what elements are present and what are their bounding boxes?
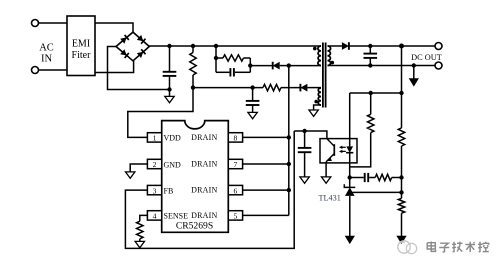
svg-text:FB: FB bbox=[164, 186, 174, 195]
capacitor FB C5 bbox=[298, 131, 312, 177]
resistor startup R1 bbox=[190, 46, 196, 88]
capacitor VDD C2 bbox=[246, 88, 260, 113]
svg-text:AC: AC bbox=[39, 43, 54, 54]
pin 1 box bbox=[147, 133, 161, 143]
wire snubber left leg bbox=[215, 46, 217, 72]
node compensation junction bbox=[348, 175, 352, 179]
wire secondary top rail bbox=[349, 45, 435, 47]
wire EMI top out to bridge top bbox=[95, 23, 133, 33]
diode output D2 bbox=[342, 42, 349, 50]
wire opto bias line bbox=[350, 92, 402, 94]
wire FB line bbox=[294, 131, 327, 139]
wire pin7 bbox=[242, 163, 289, 165]
bridge diode top-right bbox=[137, 35, 146, 44]
diode aux rectifier D3 bbox=[300, 84, 307, 92]
pin label DRAIN 8 bbox=[191, 133, 217, 142]
pin 3 box bbox=[147, 185, 161, 195]
pin 7 box bbox=[228, 159, 242, 169]
pin label DRAIN 6 bbox=[191, 186, 217, 195]
AC input terminal bottom bbox=[32, 67, 39, 74]
node secondary ground tap bbox=[412, 63, 416, 67]
wire aux diode to winding bbox=[307, 87, 321, 89]
pin 2 box bbox=[147, 159, 161, 169]
wire AC top to EMI bbox=[39, 22, 68, 24]
node FB cap bbox=[302, 129, 306, 133]
compensation cap C6 bbox=[350, 173, 376, 182]
DC output terminal plus bbox=[435, 43, 442, 50]
svg-text:CR5269S: CR5269S bbox=[176, 220, 213, 231]
pin 8 box bbox=[228, 133, 242, 143]
svg-text:IN: IN bbox=[41, 54, 52, 65]
node drain bbox=[287, 63, 291, 67]
wire AC bottom to EMI bbox=[39, 69, 68, 71]
wire snubber to clamp diode bbox=[250, 65, 272, 67]
wire feedback column upper bbox=[401, 46, 403, 128]
wire secondary bottom rail bbox=[328, 65, 436, 67]
watermark text dianzijishukong bbox=[427, 242, 489, 253]
pin label VDD bbox=[164, 134, 182, 143]
node REF junction bbox=[399, 190, 403, 194]
transformer secondary winding bbox=[328, 46, 331, 66]
wire pin8 bbox=[242, 136, 289, 138]
bridge diode bottom-left bbox=[120, 49, 129, 58]
svg-text:4: 4 bbox=[153, 212, 157, 221]
ground FB cap bbox=[300, 177, 309, 183]
node divider top line bbox=[399, 91, 403, 95]
wire aux winding bottom bbox=[314, 105, 321, 110]
wire top HV bus bbox=[149, 45, 321, 47]
label AC IN bbox=[39, 43, 54, 65]
svg-text:1: 1 bbox=[153, 134, 157, 143]
bridge diode bottom-right bbox=[137, 49, 146, 58]
ground sense arrow bbox=[135, 239, 144, 248]
node RC junction right bbox=[399, 175, 403, 179]
node LED resistor top bbox=[369, 91, 373, 95]
ground secondary bbox=[409, 66, 418, 86]
primary polarity dot bbox=[313, 47, 317, 51]
node VDD cap bbox=[250, 85, 254, 89]
optocoupler U2 body bbox=[320, 139, 357, 163]
node output cap bottom bbox=[368, 63, 372, 67]
transformer aux winding bbox=[318, 88, 321, 105]
wire divider bottom bbox=[401, 213, 403, 236]
wire opto anode bbox=[349, 93, 351, 139]
capacitor output C3 bbox=[364, 46, 378, 66]
svg-text:DRAIN: DRAIN bbox=[191, 133, 217, 142]
resistor snubber R2 bbox=[216, 55, 250, 61]
node startup/VDD junction bbox=[191, 85, 195, 89]
wire clamp diode to drain node bbox=[280, 65, 289, 67]
EMI filter block bbox=[67, 16, 95, 76]
node bulk cap bottom bus bbox=[167, 87, 171, 91]
svg-text:DC OUT: DC OUT bbox=[411, 53, 442, 62]
node bulk cap top bbox=[167, 44, 171, 48]
wire VDD routing to pin1 bbox=[128, 88, 193, 138]
node feedback tap top bbox=[399, 44, 404, 49]
resistor LED parallel R6 bbox=[350, 93, 374, 167]
wire VDD line bbox=[193, 87, 263, 89]
wire bridge negative to bottom bus bbox=[108, 47, 170, 90]
ground divider bbox=[397, 236, 406, 243]
wire opto cathode to TL431 bbox=[349, 163, 351, 188]
transformer primary winding bbox=[318, 46, 321, 66]
pin 4 box bbox=[147, 211, 161, 221]
svg-text:3: 3 bbox=[153, 186, 157, 195]
opto LED bbox=[346, 139, 353, 163]
svg-text:DRAIN: DRAIN bbox=[191, 186, 217, 195]
wire EMI bottom out to bridge bottom bbox=[95, 61, 134, 73]
ground opto emitter bbox=[321, 177, 330, 183]
wire drain rail bbox=[288, 66, 290, 216]
ground pin2 bbox=[126, 172, 135, 178]
opto light arrows bbox=[339, 146, 346, 154]
DC output terminal minus bbox=[435, 62, 442, 69]
resistor divider lower R5 bbox=[398, 198, 404, 213]
svg-text:2: 2 bbox=[153, 160, 157, 169]
wire pin4 bbox=[140, 215, 148, 221]
svg-text:DRAIN: DRAIN bbox=[191, 160, 217, 169]
svg-text:TL431: TL431 bbox=[319, 194, 341, 203]
resistor VDD R3 bbox=[263, 84, 281, 90]
ground bulk cap bbox=[165, 96, 174, 102]
svg-text:EMI: EMI bbox=[72, 39, 90, 50]
IC U1 CR5269S body bbox=[162, 121, 229, 233]
capacitor snubber C4 bbox=[216, 68, 250, 76]
node startup resistor top bbox=[191, 44, 195, 48]
wire pin6 bbox=[242, 189, 289, 191]
wire drain node to primary bbox=[289, 65, 321, 67]
aux polarity dot bbox=[314, 100, 318, 104]
capacitor bulk C1 bbox=[163, 46, 177, 96]
svg-text:GND: GND bbox=[164, 160, 182, 169]
pin 6 box bbox=[228, 185, 242, 195]
secondary polarity dot bbox=[331, 61, 335, 65]
wire divider middle bbox=[401, 146, 403, 198]
node snubber output bbox=[248, 63, 252, 67]
svg-text:8: 8 bbox=[234, 134, 238, 143]
svg-text:5: 5 bbox=[234, 212, 238, 221]
wire pin2 gnd bbox=[130, 164, 147, 172]
label TL431 bbox=[319, 194, 341, 203]
pin label FB bbox=[164, 186, 174, 195]
wire VDD resistor to diode bbox=[281, 87, 300, 89]
pin label GND bbox=[164, 160, 182, 169]
ground VDD cap bbox=[248, 112, 257, 118]
transformer core bbox=[323, 43, 326, 108]
svg-text:SENSE: SENSE bbox=[164, 212, 189, 221]
node snubber R row bbox=[214, 56, 218, 60]
wire FB return bbox=[125, 131, 294, 248]
opto phototransistor bbox=[326, 139, 334, 162]
bridge diode top-left bbox=[120, 35, 129, 44]
node pin6 drain bbox=[287, 188, 291, 192]
node snubber top bbox=[214, 44, 218, 48]
node output cap top bbox=[368, 44, 372, 48]
AC input terminal top bbox=[32, 20, 39, 27]
label CR5269S bbox=[176, 220, 213, 231]
diode clamp D1 bbox=[273, 62, 280, 70]
pin 5 box bbox=[228, 211, 242, 221]
wire secondary top to diode bbox=[328, 45, 342, 47]
node pin8 drain bbox=[287, 135, 291, 139]
resistor sense R8 bbox=[137, 221, 143, 239]
node pin7 drain bbox=[287, 162, 291, 166]
svg-text:6: 6 bbox=[234, 186, 238, 195]
svg-text:DRAIN: DRAIN bbox=[191, 211, 217, 220]
pin label SENSE bbox=[164, 212, 189, 221]
watermark logo bbox=[398, 241, 417, 254]
compensation resistor R7 bbox=[375, 174, 401, 180]
resistor divider upper R4 bbox=[398, 128, 404, 146]
ground aux winding bbox=[309, 110, 318, 116]
svg-text:7: 7 bbox=[234, 160, 238, 169]
wire opto emitter bbox=[325, 162, 327, 177]
TL431 U3 bbox=[344, 184, 355, 236]
ground TL431 bbox=[345, 236, 354, 243]
bridge rectifier BD1 body bbox=[116, 32, 149, 61]
svg-text:Fiter: Fiter bbox=[72, 50, 92, 61]
wire pin5 bbox=[242, 214, 289, 216]
svg-text:VDD: VDD bbox=[164, 134, 182, 143]
wire snubber right leg bbox=[249, 58, 251, 72]
label DC OUT bbox=[411, 53, 442, 62]
pin label DRAIN 7 bbox=[191, 160, 217, 169]
wire TL431 ref bbox=[352, 191, 401, 193]
pin label DRAIN 5 bbox=[191, 211, 217, 220]
